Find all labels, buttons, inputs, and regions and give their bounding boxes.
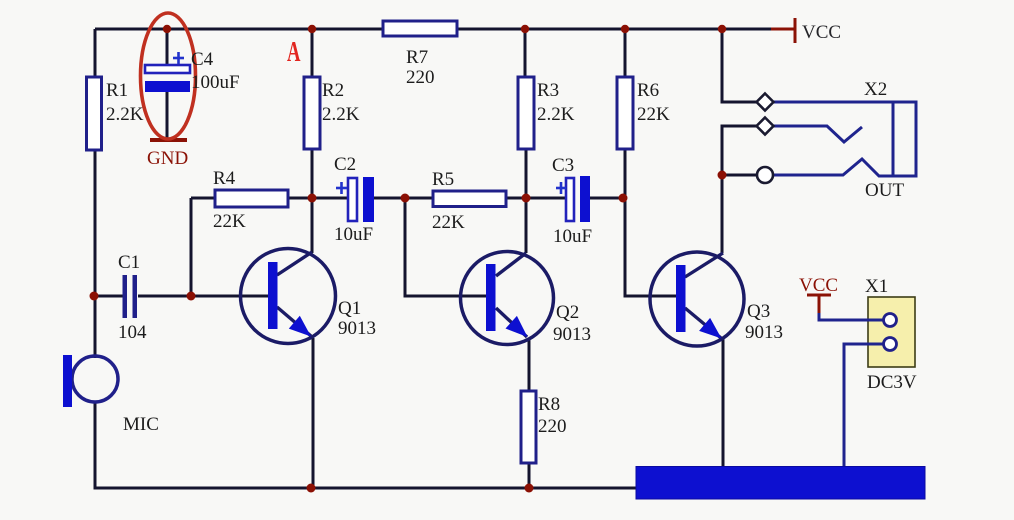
svg-text:VCC: VCC	[802, 22, 841, 43]
svg-text:22K: 22K	[637, 104, 670, 125]
svg-text:C3: C3	[552, 155, 574, 176]
svg-text:Q1: Q1	[338, 298, 361, 319]
svg-text:9013: 9013	[553, 324, 591, 345]
svg-text:C1: C1	[118, 252, 140, 273]
svg-text:R1: R1	[106, 80, 128, 101]
svg-text:MIC: MIC	[123, 414, 159, 435]
svg-text:10uF: 10uF	[553, 226, 592, 247]
svg-text:R8: R8	[538, 394, 560, 415]
svg-text:22K: 22K	[213, 211, 246, 232]
svg-text:9013: 9013	[745, 322, 783, 343]
svg-text:X2: X2	[864, 79, 887, 100]
svg-text:Q3: Q3	[747, 301, 770, 322]
svg-text:100uF: 100uF	[191, 72, 240, 93]
svg-text:R6: R6	[637, 80, 659, 101]
svg-text:104: 104	[118, 322, 147, 343]
svg-text:C4: C4	[191, 49, 214, 70]
svg-text:OUT: OUT	[865, 180, 904, 201]
svg-text:2.2K: 2.2K	[322, 104, 360, 125]
svg-text:R7: R7	[406, 47, 428, 68]
svg-text:DC3V: DC3V	[867, 372, 917, 393]
svg-text:X1: X1	[865, 276, 888, 297]
svg-text:9013: 9013	[338, 318, 376, 339]
svg-text:Q2: Q2	[556, 302, 579, 323]
svg-text:10uF: 10uF	[334, 224, 373, 245]
svg-text:220: 220	[406, 67, 435, 88]
svg-text:GND: GND	[147, 148, 188, 169]
svg-text:2.2K: 2.2K	[106, 104, 144, 125]
svg-text:VCC: VCC	[799, 275, 838, 296]
svg-text:R4: R4	[213, 168, 236, 189]
svg-text:R3: R3	[537, 80, 559, 101]
svg-text:2.2K: 2.2K	[537, 104, 575, 125]
svg-text:R5: R5	[432, 169, 454, 190]
svg-text:220: 220	[538, 416, 567, 437]
svg-text:A: A	[287, 37, 301, 68]
svg-text:R2: R2	[322, 80, 344, 101]
svg-text:C2: C2	[334, 154, 356, 175]
svg-text:22K: 22K	[432, 212, 465, 233]
